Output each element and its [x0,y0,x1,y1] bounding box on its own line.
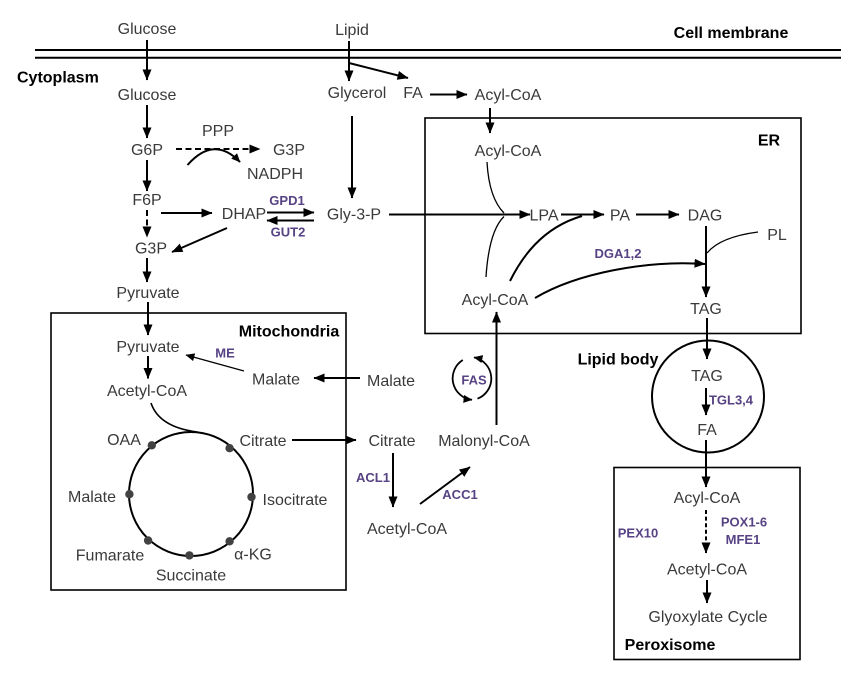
svg-text:Glyoxylate Cycle: Glyoxylate Cycle [648,609,767,626]
svg-text:Glucose: Glucose [118,21,177,38]
svg-text:TGL3,4: TGL3,4 [709,393,754,408]
svg-text:Citrate: Citrate [239,433,286,450]
svg-text:DAG: DAG [688,208,723,225]
svg-text:Fumarate: Fumarate [76,548,145,565]
svg-text:ME: ME [215,346,235,361]
svg-text:Malonyl-CoA: Malonyl-CoA [438,433,530,450]
svg-text:Acyl-CoA: Acyl-CoA [674,490,741,507]
svg-text:Acyl-CoA: Acyl-CoA [462,292,529,309]
svg-text:ACC1: ACC1 [442,487,477,502]
svg-text:Pyruvate: Pyruvate [116,285,179,302]
svg-text:FA: FA [697,422,717,439]
svg-text:LPA: LPA [529,208,558,225]
svg-text:MFE1: MFE1 [726,532,761,547]
svg-text:Citrate: Citrate [368,433,415,450]
svg-text:TAG: TAG [690,301,722,318]
svg-text:PPP: PPP [202,123,234,140]
svg-text:α-KG: α-KG [234,547,272,564]
svg-text:F6P: F6P [132,192,161,209]
svg-text:Acyl-CoA: Acyl-CoA [475,143,542,160]
svg-text:Glucose: Glucose [118,87,177,104]
svg-text:G3P: G3P [135,241,167,258]
svg-text:Lipid body: Lipid body [578,352,659,369]
svg-text:PL: PL [767,227,787,244]
svg-text:Cell membrane: Cell membrane [674,25,789,42]
svg-text:Acyl-CoA: Acyl-CoA [475,87,542,104]
svg-text:GUT2: GUT2 [271,225,306,240]
svg-text:Malate: Malate [367,373,415,390]
svg-text:Acetyl-CoA: Acetyl-CoA [367,521,447,538]
svg-text:Peroxisome: Peroxisome [625,637,716,654]
svg-text:ACL1: ACL1 [356,470,390,485]
svg-text:ER: ER [758,133,781,150]
svg-text:G3P: G3P [273,142,305,159]
svg-text:Cytoplasm: Cytoplasm [17,70,99,87]
svg-text:Succinate: Succinate [156,568,226,585]
svg-text:TAG: TAG [691,368,723,385]
svg-text:Gly-3-P: Gly-3-P [327,207,381,224]
svg-text:GPD1: GPD1 [269,193,304,208]
svg-text:DGA1,2: DGA1,2 [595,246,642,261]
svg-text:FA: FA [403,85,423,102]
svg-text:Acetyl-CoA: Acetyl-CoA [667,562,747,579]
svg-text:Glycerol: Glycerol [328,85,387,102]
svg-text:G6P: G6P [131,142,163,159]
svg-text:NADPH: NADPH [247,166,303,183]
svg-text:FAS: FAS [461,373,487,388]
svg-text:DHAP: DHAP [222,206,266,223]
svg-text:PA: PA [610,208,630,225]
svg-text:Malate: Malate [252,372,300,389]
svg-text:Lipid: Lipid [335,22,369,39]
svg-text:POX1-6: POX1-6 [721,515,767,530]
svg-text:Mitochondria: Mitochondria [239,324,340,341]
svg-text:PEX10: PEX10 [618,526,658,541]
svg-text:Isocitrate: Isocitrate [263,492,328,509]
svg-text:Pyruvate: Pyruvate [116,339,179,356]
svg-text:Acetyl-CoA: Acetyl-CoA [107,383,187,400]
svg-text:Malate: Malate [68,489,116,506]
svg-text:OAA: OAA [107,432,141,449]
